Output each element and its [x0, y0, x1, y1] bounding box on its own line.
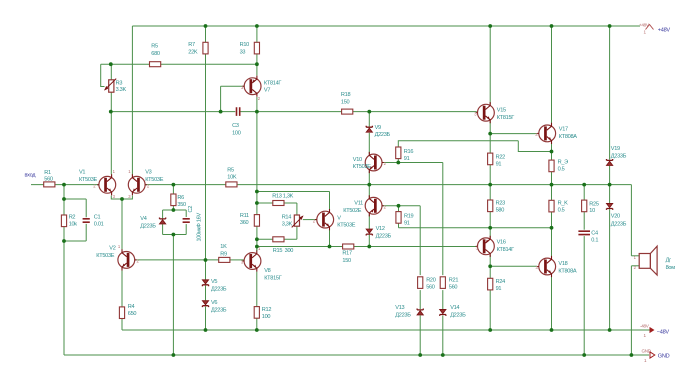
wire V15 emitter to node [489, 121, 491, 133]
label R5 (680) [151, 44, 160, 58]
svg-text:150: 150 [341, 100, 350, 106]
node R19 link / R_K [550, 226, 554, 230]
wire R16 bottom [397, 159, 399, 163]
transistor V3 [128, 174, 147, 195]
svg-text:Дг: Дг [666, 258, 671, 264]
label V3 [145, 169, 164, 183]
svg-text:560: 560 [426, 285, 435, 291]
wire V9 top [368, 112, 370, 127]
label R12 [262, 307, 272, 320]
transistor V16 [476, 236, 495, 257]
resistor R2 [61, 215, 66, 227]
wire V11 collector to rail [368, 185, 370, 198]
node V10 base / R16 [396, 161, 400, 165]
diode V14 [440, 310, 446, 316]
label R22 [496, 155, 506, 168]
svg-text:Д223Б: Д223Б [450, 312, 466, 318]
wire bias/output rail y=184.6 [146, 184, 632, 186]
node R12 / -48V rail [255, 328, 259, 332]
wire V3 collector riser [131, 26, 133, 175]
node V14 / GND rail [441, 353, 445, 357]
node R18 / V9 [367, 110, 371, 114]
diode V5 [202, 280, 208, 286]
wire output drop to speaker pin1 [630, 185, 632, 256]
label net vhod [25, 173, 37, 179]
svg-text:КТ503Е: КТ503Е [353, 164, 372, 170]
label R20 [426, 278, 436, 291]
wire R10 to V7 emitter [256, 54, 258, 76]
wire V13 to GND rail [419, 316, 421, 356]
wire R12 to -48V rail [256, 318, 258, 330]
wire V11 base to R19/R20 node [382, 205, 420, 207]
resistor R23 [488, 200, 493, 212]
wire R3 top stub [110, 64, 112, 80]
label R1 [44, 170, 53, 183]
pin 3 of V7 [241, 85, 244, 90]
wire junction down to V2 collector [121, 199, 123, 250]
wire R3 to node rail [110, 92, 112, 112]
resistor R10 [254, 42, 259, 54]
capacitor C1 [83, 219, 90, 222]
wire R16 top link to V17 emitter node [398, 141, 551, 152]
wire R20 to V13 [419, 290, 421, 309]
label R11 [240, 213, 249, 226]
label C3 [232, 123, 241, 137]
label V13 [395, 305, 411, 318]
label R9 [220, 244, 227, 258]
resistor R6 [171, 194, 176, 206]
diode V12 [366, 229, 372, 235]
svg-text:V2: V2 [109, 245, 115, 251]
wire R13 row [257, 203, 297, 215]
svg-text:R13 1,3K: R13 1,3K [272, 193, 293, 199]
svg-text:100: 100 [262, 314, 271, 320]
node top rail / R10 [255, 24, 259, 28]
resistor R7 [203, 42, 208, 54]
svg-text:V4: V4 [140, 216, 146, 222]
wire C2 bottom stub [185, 224, 187, 234]
wire V8 emitter to R12 [256, 272, 258, 307]
node loop / GND rail [172, 353, 176, 357]
node speaker / GND rail [630, 353, 634, 357]
pin 2 of speaker [634, 265, 637, 270]
svg-text:22K: 22K [188, 50, 198, 56]
resistor R5 (680) [150, 62, 161, 67]
node top rail / V19 [608, 24, 612, 28]
pin 2 of V10 [384, 161, 387, 166]
node V3 base / R6 [172, 183, 176, 187]
wire V20 to -48V rail [609, 209, 611, 330]
pin 2 of V7 [258, 96, 261, 101]
svg-text:33: 33 [240, 50, 246, 56]
svg-text:Д233Б: Д233Б [611, 153, 627, 159]
label V7 [264, 81, 282, 94]
label net GND [658, 354, 670, 360]
svg-text:+48V: +48V [658, 28, 671, 34]
label V14 [450, 305, 466, 318]
node V11 base / R19 [397, 204, 401, 208]
ground GND symbol [642, 349, 655, 364]
wire V15 collector [489, 26, 491, 104]
node R3 / rail [109, 110, 113, 114]
label R_K [558, 201, 569, 214]
pin 2 of V-bias [313, 218, 316, 223]
wire loop to GND rail [172, 235, 174, 356]
wire node to R22 [489, 134, 491, 154]
label R16 [404, 149, 414, 162]
svg-text:650: 650 [128, 311, 137, 317]
svg-text:R3: R3 [116, 80, 123, 86]
wire V1 emitter to junction [111, 196, 122, 199]
wire V8 collector stub [256, 247, 258, 251]
svg-text:3.3K: 3.3K [116, 87, 127, 93]
transistor V17 [537, 123, 556, 144]
wire GND rail y=355 [64, 354, 649, 356]
wire R22 to rail [489, 165, 491, 185]
wire left loop down [63, 241, 65, 355]
label V17 [559, 127, 578, 141]
node C1 bottom [62, 239, 66, 243]
node R9 / V5 [204, 258, 208, 262]
label R10 [240, 42, 250, 56]
node V-bias emitter [328, 245, 332, 249]
resistor R22 [488, 153, 493, 165]
node top rail / V15 collector [488, 24, 492, 28]
label R18 [341, 92, 351, 106]
transistor V11 [365, 195, 384, 216]
wire R10 top [256, 26, 258, 42]
svg-text:R23: R23 [496, 201, 506, 207]
svg-text:R21: R21 [449, 278, 459, 284]
svg-text:C3: C3 [232, 123, 239, 129]
svg-text:R_Э: R_Э [558, 160, 569, 166]
svg-text:R19: R19 [404, 213, 414, 219]
label V5 [211, 279, 227, 292]
svg-text:1: 1 [644, 333, 647, 338]
wire V4 bottom stub [162, 224, 164, 234]
svg-text:V: V [337, 215, 341, 221]
node V15 emitter / V17 base [488, 132, 492, 136]
svg-text:V3: V3 [145, 169, 151, 175]
transistor V10 [365, 152, 384, 173]
resistor R_K [549, 200, 554, 212]
resistor R3 trimmer [104, 79, 116, 93]
resistor R13 [273, 201, 284, 206]
wire R19 bottom link [399, 223, 552, 227]
pin 3 of V8 [241, 260, 244, 265]
svg-text:10: 10 [589, 208, 595, 214]
svg-text:КТ808А: КТ808А [559, 134, 578, 140]
wire speaker stub1 [631, 255, 639, 257]
resistor R15 [273, 237, 284, 242]
svg-text:C2: C2 [188, 206, 194, 213]
svg-text:R10: R10 [240, 42, 250, 48]
svg-text:560: 560 [449, 285, 458, 291]
svg-text:R22: R22 [496, 155, 506, 161]
pin 3 of V16 [476, 246, 479, 251]
wire R5-680 row y=64 [101, 63, 257, 65]
wire V-bias base [303, 219, 317, 221]
label C1 [94, 215, 104, 228]
svg-text:V9: V9 [375, 125, 381, 131]
svg-text:V17: V17 [559, 127, 568, 133]
svg-text:КТ503Е: КТ503Е [145, 177, 164, 183]
svg-text:1K: 1K [220, 244, 227, 250]
node V7 base drop [219, 110, 223, 114]
wire -48V rail y=330 [122, 329, 650, 331]
transistor V1 [97, 174, 116, 195]
pin 1 of V3 [128, 169, 131, 174]
wire V4/C2 loop bottom [163, 234, 187, 236]
svg-text:вход: вход [25, 173, 37, 179]
wire V1 collector [110, 112, 112, 175]
node input / R2 [62, 183, 66, 187]
label net +48V [658, 28, 671, 34]
svg-text:350: 350 [177, 202, 186, 208]
svg-text:3,3K: 3,3K [282, 222, 293, 228]
node R11 / R15 [255, 237, 259, 241]
label C4 [591, 231, 598, 244]
svg-text:Д223Б: Д223Б [611, 221, 627, 227]
svg-text:Д223Б: Д223Б [375, 132, 391, 138]
label V20 [611, 214, 627, 228]
wire R7 top [205, 26, 207, 42]
transistor V15 [476, 102, 495, 123]
wire R11 to V8 collector [256, 226, 258, 250]
pin 2 of V11 [384, 204, 387, 209]
wire input segment [31, 184, 99, 186]
svg-text:91: 91 [404, 156, 410, 162]
pin 1 of speaker [634, 255, 637, 260]
svg-text:Д223Б: Д223Б [211, 286, 227, 292]
svg-text:V1: V1 [79, 169, 85, 175]
wire V14 to GND rail [442, 316, 444, 356]
speaker Dg 8ohm [639, 246, 657, 275]
node bias rail / V8 collector [255, 245, 259, 249]
svg-text:V16: V16 [497, 240, 506, 246]
label R4 [128, 304, 137, 317]
svg-text:C1: C1 [94, 215, 101, 221]
node R5-680 / R3 [109, 62, 113, 66]
svg-text:10k: 10k [69, 222, 78, 228]
diode V6 [202, 301, 208, 307]
diode V19 [607, 159, 613, 165]
svg-text:-48V: -48V [640, 324, 650, 329]
wire R_E to R_K [551, 172, 553, 201]
pin 3 of V18 [536, 265, 539, 270]
svg-text:КТ502Е: КТ502Е [343, 208, 362, 214]
wire V7 base [221, 86, 244, 111]
svg-text:100мкФ 16V: 100мкФ 16V [197, 213, 203, 242]
svg-text:−48V: −48V [657, 330, 670, 336]
pin 2 of V1 [93, 184, 96, 189]
wire V7 collector to node [256, 97, 258, 112]
svg-text:КТ808А: КТ808А [558, 268, 577, 274]
resistor R20 [418, 277, 423, 289]
wire speaker pin2 to GND rail [630, 266, 632, 355]
wire C2 top stub [185, 210, 187, 217]
svg-text:Д223Б: Д223Б [376, 233, 392, 239]
capacitor C4 [578, 231, 590, 234]
transistor V2 [118, 249, 137, 270]
svg-text:R15 300: R15 300 [273, 248, 293, 254]
node rail / R22 R23 [488, 183, 492, 187]
wire C1 top branch [64, 199, 86, 217]
wire R21 to V14 [442, 290, 444, 309]
svg-text:C4: C4 [591, 231, 598, 237]
label R19 [404, 213, 414, 226]
wire R14 to R15 row [257, 226, 297, 239]
wire node to V18 base [490, 265, 537, 267]
node V18 emitter / -48V rail [550, 328, 554, 332]
wire R2 bottom [63, 227, 65, 241]
label V10 [353, 157, 372, 170]
wire R19 top stub [398, 206, 400, 212]
transistor V7 [242, 76, 261, 97]
resistor R11 [254, 215, 259, 227]
label speaker Dg [666, 258, 676, 271]
wire V4/C2 loop top [163, 209, 187, 211]
wire V17 collector [551, 26, 553, 125]
label V (bias) [337, 215, 356, 228]
wire V7 node down to R11 [256, 112, 258, 215]
svg-text:360: 360 [240, 220, 249, 226]
svg-text:R18: R18 [341, 92, 351, 98]
label V8 [264, 268, 282, 282]
wire R_K to V18 collector [551, 212, 553, 258]
node R23 / V16 emitter [488, 226, 492, 230]
resistor R4 [119, 307, 124, 319]
node rail / R_E R_K [550, 183, 554, 187]
label R23 [496, 201, 506, 214]
svg-text:V15: V15 [497, 108, 506, 114]
svg-text:V20: V20 [611, 214, 620, 220]
label V1 [79, 169, 98, 183]
svg-text:1: 1 [644, 358, 647, 363]
wire node to V17 base [490, 133, 537, 135]
label R2 [69, 215, 78, 228]
wire +48V top rail [132, 25, 640, 27]
svg-text:91: 91 [496, 162, 502, 168]
diode V20 [607, 204, 613, 210]
pin 1 of V8 [258, 246, 261, 251]
svg-text:V5: V5 [211, 279, 217, 285]
wire speaker stub2 [631, 265, 639, 267]
pin 1 of V2 [118, 244, 121, 249]
svg-text:R14: R14 [282, 215, 292, 221]
resistor R21 [440, 277, 445, 289]
pin 3 of V17 [535, 132, 538, 137]
supply +48V symbol [639, 23, 654, 35]
svg-text:680: 680 [151, 51, 160, 57]
transistor V8 [242, 250, 261, 271]
resistor R24 [488, 278, 493, 290]
label V15 [497, 108, 515, 122]
transistor V18 [537, 256, 556, 277]
label C2 value [197, 213, 203, 242]
pin 3 of V3 [128, 194, 131, 199]
wire rail y=111.6 C3 to V15 base [240, 111, 476, 113]
wire rail to R25 [583, 185, 585, 201]
svg-text:R20: R20 [426, 278, 436, 284]
svg-text:R5: R5 [151, 44, 158, 50]
resistor R25 [582, 200, 587, 212]
svg-text:0.5: 0.5 [558, 167, 565, 173]
node V17 emitter / R_E [550, 150, 554, 154]
svg-text:КТ503Е: КТ503Е [337, 222, 356, 228]
label R17 [342, 250, 352, 263]
node V12 / bias rail [367, 245, 371, 249]
svg-text:R_K: R_K [558, 201, 569, 207]
wire V2 base row [135, 259, 219, 261]
label R14 [282, 215, 293, 228]
wire V10 emitter to rail [368, 171, 370, 184]
label V6 [211, 300, 227, 313]
svg-text:R7: R7 [188, 42, 195, 48]
svg-text:Д223Б: Д223Б [140, 223, 156, 229]
wire bias rail y=246.5 [257, 246, 477, 248]
label V18 [558, 261, 577, 275]
svg-text:91: 91 [404, 220, 410, 226]
capacitor C3 [237, 107, 240, 116]
label V16 [497, 240, 515, 254]
svg-text:R9: R9 [220, 252, 227, 258]
svg-text:0.5: 0.5 [558, 208, 565, 214]
svg-text:КТ503Е: КТ503Е [79, 177, 98, 183]
node V1 V3 emitters [120, 197, 124, 201]
pin 1 of V1 [113, 169, 116, 174]
svg-text:580: 580 [496, 208, 505, 214]
node rail / R25 [582, 183, 586, 187]
svg-text:8ом: 8ом [666, 265, 676, 271]
svg-text:R16: R16 [404, 149, 414, 155]
wire Vbe collector loop y=191.5 [257, 192, 330, 213]
svg-text:R17: R17 [342, 250, 352, 256]
node V13 / GND rail [418, 353, 422, 357]
wire V5 to V6 [205, 286, 207, 301]
wire V11 emitter to V12 [368, 215, 370, 229]
wire R16 node to R21 column [398, 163, 443, 276]
wire R24 to -48V rail [489, 290, 491, 330]
resistor R14 trimmer [292, 215, 304, 227]
label V9 [375, 125, 391, 138]
pin 3 of V1 [113, 194, 116, 199]
wire R9 to V8 base [230, 259, 244, 261]
svg-text:R4: R4 [128, 304, 135, 310]
resistor R_E [549, 160, 554, 172]
resistor R19 [396, 212, 401, 224]
label R5 (10K) [227, 168, 237, 181]
wire V17 emitter to node [551, 142, 553, 152]
svg-text:R24: R24 [496, 279, 506, 285]
svg-text:R5: R5 [227, 168, 234, 174]
wire V6 to -48V rail [205, 307, 207, 330]
svg-text:КТ503Е: КТ503Е [96, 253, 115, 259]
label R13 [272, 193, 293, 199]
node C1 top [62, 197, 66, 201]
svg-text:1: 1 [644, 30, 647, 35]
wire R20 column [419, 206, 421, 275]
pin 3 of V15 [474, 111, 477, 116]
node R24 / -48V rail [488, 328, 492, 332]
svg-text:R12: R12 [262, 307, 272, 313]
svg-text:V19: V19 [611, 146, 620, 152]
label V11 [343, 201, 363, 215]
node V20 / -48V rail [608, 328, 612, 332]
wire R6 top [172, 185, 174, 194]
resistor R9 [219, 257, 230, 262]
svg-text:V12: V12 [376, 226, 385, 232]
